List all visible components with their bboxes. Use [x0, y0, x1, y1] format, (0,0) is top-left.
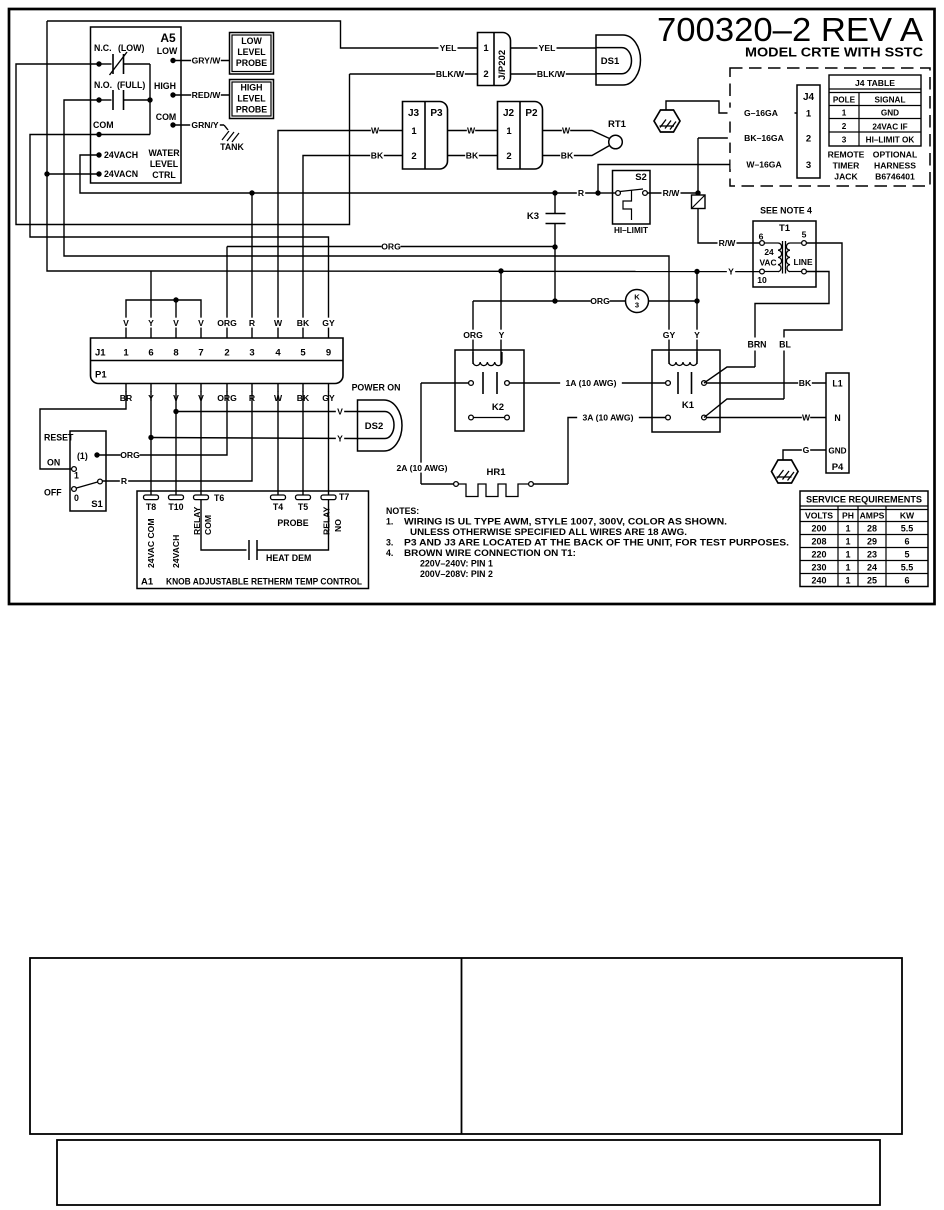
transformer T1 box: [753, 221, 816, 287]
svg-text:1: 1: [845, 563, 850, 573]
wire W from P2 to RT1: [543, 131, 610, 139]
svg-text:V: V: [198, 318, 204, 328]
reset switch S1 box: [70, 431, 106, 511]
svg-text:1A (10 AWG): 1A (10 AWG): [566, 378, 617, 388]
svg-text:200V–208V: PIN 2: 200V–208V: PIN 2: [420, 569, 493, 579]
svg-text:J/P202: J/P202: [497, 50, 508, 80]
svg-text:COM: COM: [203, 515, 213, 535]
wire A5 COM down to J1 pin 9 GY: [30, 135, 329, 339]
wire 24VACN / Y net vertical: [47, 21, 151, 271]
svg-text:KNOB ADJUSTABLE RETHERM TEMP C: KNOB ADJUSTABLE RETHERM TEMP CONTROL: [166, 577, 362, 587]
wire R/W from S2 to junction: [648, 192, 699, 194]
svg-text:BK: BK: [561, 151, 574, 161]
connector J1/P1 box: [91, 338, 344, 384]
K2 aux contact: [469, 415, 474, 420]
svg-text:GND: GND: [881, 109, 899, 118]
svg-text:W: W: [371, 126, 380, 136]
wire BL diagonal to K1 power contact: [704, 399, 784, 418]
wire BL lower segment: [783, 351, 785, 400]
wire RED/W to high level probe: [173, 94, 230, 96]
svg-text:A1: A1: [141, 577, 154, 588]
svg-text:(LOW): (LOW): [118, 43, 144, 53]
svg-text:ORG: ORG: [381, 242, 401, 252]
wire ORG net upper horizontal: [227, 246, 555, 248]
svg-text:S1: S1: [91, 499, 103, 510]
svg-text:BK: BK: [371, 151, 384, 161]
svg-text:6: 6: [759, 232, 764, 242]
wire G-16GA from ground to J4 pin 1: [666, 101, 797, 113]
svg-text:T8: T8: [146, 502, 156, 512]
svg-text:W: W: [467, 126, 476, 136]
connector J/P202: [478, 33, 511, 86]
svg-text:LEVEL: LEVEL: [237, 47, 266, 57]
svg-text:LINE: LINE: [793, 257, 812, 267]
wire Y branch down to K2 coil: [500, 271, 502, 364]
svg-text:UNLESS OTHERWISE SPECIFIED ALL: UNLESS OTHERWISE SPECIFIED ALL WIRES ARE…: [410, 527, 687, 537]
svg-text:J1: J1: [95, 348, 106, 359]
svg-text:ORG: ORG: [217, 318, 237, 328]
svg-text:7: 7: [198, 348, 203, 359]
svg-text:28: 28: [867, 524, 877, 534]
svg-text:N: N: [834, 413, 840, 423]
svg-text:BK: BK: [466, 151, 479, 161]
svg-text:R: R: [249, 318, 256, 328]
wire R from J1 pin 3 down to S1: [102, 391, 252, 481]
connector J4: [797, 85, 820, 178]
svg-text:R: R: [578, 188, 585, 198]
svg-text:BLK/W: BLK/W: [436, 69, 465, 79]
K1 coil: [669, 352, 697, 366]
wire BK from P2 to RT1: [543, 146, 610, 156]
svg-text:23: 23: [867, 550, 877, 560]
wire BLK/W to J/P202: [350, 73, 478, 75]
wire BK from J1 pin 5 down to T5: [302, 391, 304, 497]
svg-text:1: 1: [74, 471, 79, 481]
pin labels below J1: [125, 384, 127, 392]
wire W-16GA to J4 pin 3: [731, 159, 798, 169]
optional harness dashed outline: [730, 68, 930, 186]
relay coil K3: [626, 290, 649, 313]
wire 24VACN stub: [47, 173, 99, 175]
svg-text:COM: COM: [156, 112, 177, 122]
contactor K1 box: [652, 350, 720, 432]
svg-text:P3: P3: [430, 108, 443, 119]
wire Y from J1 pin 6 down to T8: [150, 391, 152, 497]
svg-text:A5: A5: [160, 31, 176, 45]
svg-text:GY: GY: [322, 318, 335, 328]
svg-text:6: 6: [904, 576, 909, 586]
svg-text:CTRL: CTRL: [152, 170, 176, 180]
wire BR from J1 pin 1 to S1: [40, 391, 126, 469]
svg-text:P1: P1: [95, 370, 107, 381]
heat demand capacitor symbol: [201, 500, 247, 550]
svg-text:Y: Y: [694, 330, 700, 340]
svg-text:B6746401: B6746401: [875, 172, 915, 182]
wire V from J1 pin 7 down to T6: [200, 391, 202, 497]
svg-text:BK: BK: [799, 378, 812, 388]
svg-text:DS1: DS1: [601, 56, 620, 67]
svg-text:2: 2: [411, 151, 416, 162]
svg-text:8: 8: [173, 348, 178, 359]
svg-text:2: 2: [506, 151, 511, 162]
svg-text:HI–LIMIT: HI–LIMIT: [614, 226, 648, 235]
wire Y to DS2: [151, 438, 358, 439]
wire 3A from HR1 to K1: [568, 418, 666, 485]
svg-text:W: W: [562, 126, 571, 136]
wire A5 N.O. to K1 coil GY: [64, 100, 669, 364]
svg-text:RT1: RT1: [608, 119, 627, 130]
svg-text:(FULL): (FULL): [117, 80, 145, 90]
title block box lower: [57, 1140, 880, 1205]
svg-text:HARNESS: HARNESS: [874, 161, 916, 171]
A5 24VACH terminal: [96, 152, 101, 157]
T1 pin 5: [802, 241, 807, 246]
svg-text:BROWN WIRE CONNECTION ON T1:: BROWN WIRE CONNECTION ON T1:: [404, 548, 576, 558]
wire W between P3 and J2: [448, 130, 499, 132]
wire W from J1 pin 4 down to T4: [277, 391, 279, 497]
svg-text:J4 TABLE: J4 TABLE: [855, 78, 895, 88]
svg-text:P4: P4: [832, 462, 844, 473]
chassis ground symbol near J4: [654, 110, 680, 132]
wire BRN from T1 LINE pin: [755, 272, 829, 338]
svg-text:BK–16GA: BK–16GA: [744, 133, 784, 143]
svg-text:5: 5: [904, 550, 909, 560]
revision table box upper: [30, 958, 902, 1134]
wire A5 N.C. to BLK/W net (left route): [16, 64, 350, 225]
svg-text:W: W: [802, 413, 811, 423]
svg-text:V: V: [123, 318, 129, 328]
svg-text:W: W: [274, 318, 283, 328]
wire BK from K1 to L1: [707, 382, 827, 384]
svg-text:PROBE: PROBE: [277, 518, 308, 528]
svg-text:ON: ON: [47, 458, 60, 468]
tank ground symbol: [224, 125, 228, 130]
svg-text:V: V: [337, 407, 343, 417]
svg-text:T6: T6: [214, 493, 224, 503]
wire 2A from K2 down to HR1: [420, 383, 422, 484]
svg-text:OPTIONAL: OPTIONAL: [873, 150, 917, 160]
svg-text:5: 5: [802, 230, 807, 240]
svg-text:1: 1: [845, 524, 850, 534]
svg-text:1: 1: [506, 126, 512, 137]
svg-text:700320–2 REV A: 700320–2 REV A: [657, 12, 924, 49]
svg-text:24: 24: [764, 247, 774, 257]
wire W from K1 to N: [707, 417, 827, 419]
svg-text:5.5: 5.5: [901, 563, 914, 573]
svg-text:9: 9: [326, 348, 331, 359]
label GY on K1 coil wire: [662, 330, 676, 340]
wire R/W down to T1 pin 6: [698, 209, 760, 244]
wire V to DS2: [176, 411, 358, 413]
svg-text:REMOTE: REMOTE: [828, 150, 865, 160]
svg-text:T1: T1: [779, 223, 791, 234]
svg-text:OFF: OFF: [44, 488, 62, 498]
svg-text:NOTES:: NOTES:: [386, 506, 419, 516]
svg-text:K2: K2: [492, 402, 504, 413]
svg-text:HEAT DEM: HEAT DEM: [266, 553, 311, 563]
svg-text:BRN: BRN: [747, 340, 766, 350]
svg-text:0: 0: [74, 493, 79, 503]
thermistor RT1: [609, 135, 623, 149]
wire YEL from top rail to J/P202: [47, 21, 478, 48]
low level probe box: [230, 33, 274, 75]
svg-text:HI–LIMIT OK: HI–LIMIT OK: [866, 136, 915, 145]
retherm control A1 box: [137, 491, 369, 589]
svg-text:220: 220: [811, 550, 826, 560]
wire G to ground: [783, 450, 826, 460]
power terminal block P4: [826, 373, 849, 473]
svg-text:G–16GA: G–16GA: [744, 108, 778, 118]
svg-text:W–16GA: W–16GA: [746, 160, 781, 170]
svg-text:SERVICE REQUIREMENTS: SERVICE REQUIREMENTS: [806, 494, 922, 505]
svg-text:LEVEL: LEVEL: [150, 159, 179, 169]
svg-text:WATER: WATER: [148, 148, 180, 158]
svg-text:LOW: LOW: [157, 46, 178, 56]
wire GRN/Y to tank ground: [173, 124, 224, 126]
svg-text:1: 1: [842, 109, 847, 118]
wire V bracket above J1 pins 1-8-7: [126, 300, 201, 338]
svg-text:ORG: ORG: [590, 296, 610, 306]
svg-text:Y: Y: [148, 318, 154, 328]
svg-text:GND: GND: [828, 447, 846, 456]
svg-text:LEVEL: LEVEL: [237, 94, 266, 104]
svg-text:3: 3: [806, 160, 811, 171]
svg-text:GRN/Y: GRN/Y: [191, 120, 218, 130]
svg-text:SIGNAL: SIGNAL: [875, 96, 906, 105]
chassis ground symbol at P4: [772, 460, 799, 483]
svg-text:1: 1: [483, 43, 489, 54]
wire Y from J1 pin 6 up: [150, 271, 152, 338]
svg-text:G: G: [803, 445, 810, 455]
svg-text:MODEL CRTE WITH SSTC: MODEL CRTE WITH SSTC: [745, 45, 924, 60]
svg-text:24VAC COM: 24VAC COM: [146, 518, 156, 568]
svg-text:24VAC IF: 24VAC IF: [872, 123, 907, 132]
K1 main contact: [666, 381, 671, 386]
wire BK between P3 and J2: [448, 155, 499, 157]
wire BK from J1 pin 5 up to J3 pin 2: [303, 156, 403, 339]
wire YEL from J/P202 to DS1: [511, 47, 597, 49]
connector J2/P2: [498, 102, 543, 170]
svg-text:29: 29: [867, 537, 877, 547]
svg-text:6: 6: [904, 537, 909, 547]
svg-text:BL: BL: [779, 340, 791, 350]
wire ORG from S1 (1) terminal: [121, 450, 140, 460]
svg-text:3.: 3.: [386, 538, 393, 548]
svg-text:SEE NOTE 4: SEE NOTE 4: [760, 206, 812, 216]
svg-text:2A (10 AWG): 2A (10 AWG): [397, 463, 448, 473]
svg-text:J2: J2: [503, 108, 515, 119]
svg-text:K3: K3: [527, 211, 539, 222]
connector J3/P3: [403, 102, 448, 170]
wire BRN diagonal to K1 main contact: [704, 367, 755, 383]
svg-text:VOLTS: VOLTS: [805, 511, 833, 521]
svg-text:24VACH: 24VACH: [104, 150, 138, 160]
svg-text:24: 24: [867, 563, 877, 573]
wire Y branch down to K1 coil: [696, 272, 698, 365]
svg-text:POLE: POLE: [833, 96, 856, 105]
svg-text:COM: COM: [93, 120, 114, 130]
S2 contacts: [616, 191, 621, 196]
svg-text:BK: BK: [297, 318, 310, 328]
svg-text:2: 2: [483, 69, 488, 80]
svg-text:ORG: ORG: [120, 450, 140, 460]
svg-text:NO: NO: [333, 519, 343, 532]
svg-text:VAC: VAC: [759, 258, 776, 268]
svg-text:200: 200: [811, 524, 826, 534]
svg-text:Y: Y: [728, 267, 734, 277]
svg-text:J4: J4: [803, 92, 815, 103]
svg-text:R: R: [121, 476, 128, 486]
service requirements table: [800, 491, 928, 587]
svg-text:1: 1: [845, 576, 850, 586]
svg-text:JACK: JACK: [834, 172, 858, 182]
svg-text:BLK/W: BLK/W: [537, 69, 566, 79]
svg-text:208: 208: [811, 537, 826, 547]
svg-text:N.C.: N.C.: [94, 43, 112, 53]
svg-text:PROBE: PROBE: [236, 105, 267, 115]
svg-text:3: 3: [635, 301, 639, 310]
svg-text:R/W: R/W: [719, 238, 737, 248]
A5 24VACN terminal: [96, 171, 101, 176]
svg-text:Y: Y: [499, 330, 505, 340]
svg-text:1: 1: [845, 537, 850, 547]
svg-text:240: 240: [811, 576, 826, 586]
svg-text:10: 10: [757, 275, 767, 285]
svg-text:4.: 4.: [386, 548, 393, 558]
wire ORG from J1 pin 2 up: [226, 247, 228, 339]
svg-text:1: 1: [845, 550, 850, 560]
svg-text:S2: S2: [635, 172, 647, 183]
T1 pin 6: [760, 241, 765, 246]
border frame of schematic sheet: [9, 9, 935, 604]
wire BRN lower segment: [754, 351, 756, 368]
wire ORG from J1 pin 2 down to S1: [99, 391, 227, 455]
svg-text:K1: K1: [682, 400, 695, 411]
hi-limit switch S2 box: [613, 171, 651, 225]
svg-text:POWER ON: POWER ON: [352, 383, 401, 393]
svg-text:25: 25: [867, 576, 877, 586]
svg-text:(1): (1): [77, 451, 88, 461]
svg-text:L1: L1: [832, 379, 842, 389]
wire W from J1 pin 4 up to J3 pin 1: [278, 131, 403, 339]
svg-text:ORG: ORG: [463, 330, 483, 340]
fuse/splice square on 24VAC IF line: [697, 138, 699, 195]
svg-text:TIMER: TIMER: [833, 161, 861, 171]
svg-text:N.O.: N.O.: [94, 80, 112, 90]
svg-text:DS2: DS2: [365, 421, 383, 432]
svg-text:AMPS: AMPS: [860, 511, 885, 521]
svg-text:220V–240V: PIN 1: 220V–240V: PIN 1: [420, 559, 493, 569]
wire GRY/W to low level probe: [173, 60, 230, 62]
svg-text:3: 3: [249, 348, 254, 359]
svg-text:24VACN: 24VACN: [104, 169, 138, 179]
wire R from J1 pin 3 up: [251, 193, 253, 338]
wire V from J1 pin 8 down to T10: [175, 391, 177, 497]
terminal pads T8 T10 T6 T4 T5 T7: [144, 495, 159, 500]
svg-text:5.5: 5.5: [901, 524, 914, 534]
svg-text:HIGH: HIGH: [154, 81, 176, 91]
svg-text:V: V: [173, 318, 179, 328]
wire 24VACH to R net: [80, 155, 598, 193]
T1 pin 10: [760, 269, 765, 274]
svg-text:RED/W: RED/W: [192, 90, 222, 100]
svg-text:Y: Y: [337, 434, 343, 444]
svg-text:T5: T5: [298, 502, 308, 512]
svg-text:KW: KW: [900, 511, 915, 521]
wire BL from T1 pin 5: [784, 243, 842, 338]
svg-text:2: 2: [842, 122, 847, 131]
svg-text:R/W: R/W: [663, 188, 681, 198]
K1 power contact: [666, 415, 671, 420]
svg-text:T7: T7: [339, 492, 349, 502]
indicator lamp DS1: [596, 35, 640, 85]
svg-text:GY: GY: [663, 330, 676, 340]
K2 coil: [473, 352, 502, 366]
wire GY from J1 pin 9 down to T7: [328, 391, 330, 497]
svg-text:4: 4: [275, 348, 281, 359]
svg-text:PH: PH: [842, 511, 854, 521]
svg-text:3A (10 AWG): 3A (10 AWG): [583, 413, 634, 423]
svg-text:3: 3: [842, 136, 847, 145]
svg-text:GRY/W: GRY/W: [192, 56, 222, 66]
svg-text:1: 1: [411, 126, 417, 137]
A5 internal common wire: [149, 64, 151, 135]
pin labels above J1: [122, 318, 130, 328]
svg-text:PROBE: PROBE: [236, 58, 267, 68]
svg-text:RESET: RESET: [44, 433, 74, 443]
svg-text:HIGH: HIGH: [241, 83, 263, 93]
wire R from S1 common: [120, 476, 128, 486]
svg-text:5: 5: [300, 348, 306, 359]
S1 blade: [77, 482, 98, 488]
J4 table: [829, 75, 921, 146]
svg-text:T10: T10: [168, 502, 183, 512]
svg-text:WIRING IS UL TYPE AWM, STYLE 1: WIRING IS UL TYPE AWM, STYLE 1007, 300V,…: [404, 517, 727, 527]
wire BK-16GA to J4 pin 2: [698, 137, 797, 139]
svg-text:230: 230: [811, 563, 826, 573]
high level probe box: [230, 80, 274, 119]
svg-text:P3 AND J3 ARE LOCATED AT THE B: P3 AND J3 ARE LOCATED AT THE BACK OF THE…: [404, 538, 789, 548]
wire ORG down to K2 coil: [472, 301, 474, 364]
svg-text:TANK: TANK: [220, 142, 244, 152]
svg-text:2: 2: [806, 134, 811, 145]
svg-text:P2: P2: [525, 108, 538, 119]
svg-text:YEL: YEL: [440, 43, 457, 53]
svg-text:1.: 1.: [386, 517, 393, 527]
wire R into S2: [600, 192, 616, 194]
K2 main contact: [421, 382, 469, 384]
svg-text:J3: J3: [408, 108, 420, 119]
wire 1A from K2 to K1: [510, 382, 666, 384]
svg-text:RELAY: RELAY: [322, 506, 332, 535]
water level control A5 box: [91, 27, 182, 183]
svg-text:2: 2: [224, 348, 229, 359]
T1 LINE pin: [802, 269, 807, 274]
svg-text:6: 6: [148, 348, 153, 359]
svg-text:T4: T4: [273, 502, 283, 512]
revision table divider: [461, 958, 463, 1134]
wire from K3 coil to Y net: [649, 300, 698, 302]
svg-text:HR1: HR1: [486, 467, 506, 478]
wire ORG row to K3 coil and K2: [473, 300, 626, 302]
T1 windings: [764, 242, 778, 244]
capacitor-style contact K3: [554, 193, 556, 213]
svg-text:1: 1: [123, 348, 129, 359]
svg-text:1: 1: [806, 109, 812, 120]
wire Y net horizontal to T1 pin 10: [151, 270, 760, 273]
contactor K2 box: [455, 350, 524, 431]
svg-text:24VACH: 24VACH: [171, 535, 181, 568]
